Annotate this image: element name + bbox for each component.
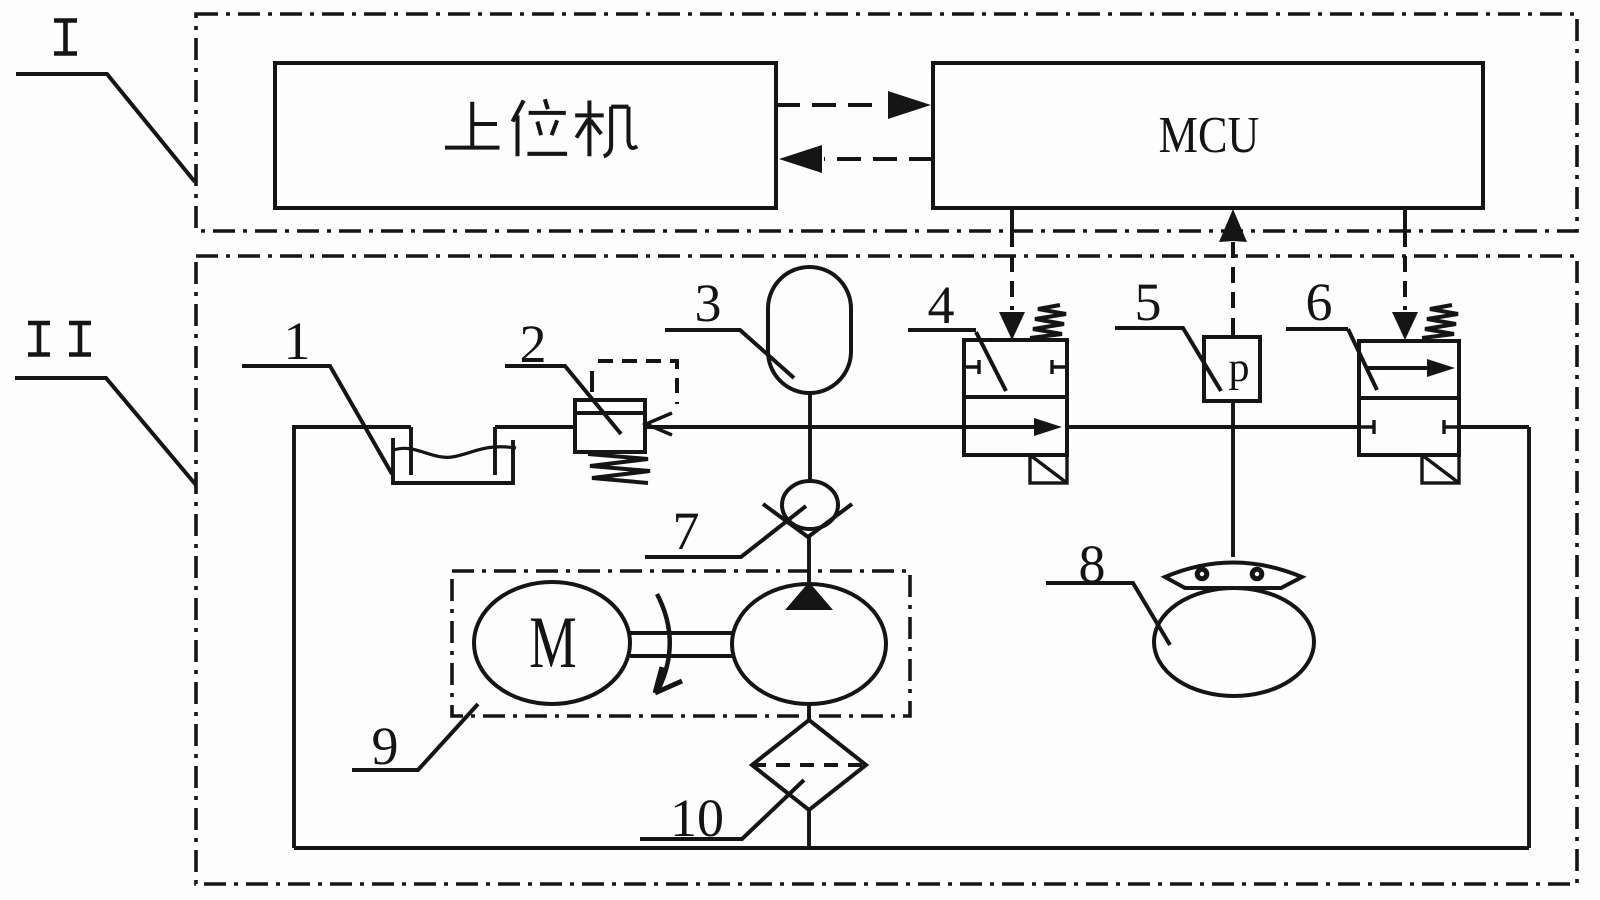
label 10 with leader line (640, 780, 804, 848)
label II with leader line (15, 323, 196, 485)
valve 6 flow path arrow (1365, 359, 1455, 377)
svg-text:3: 3 (695, 273, 722, 333)
valve 6 right port tick (1444, 420, 1459, 434)
wire: pipe valve 4 to valve 6 (1067, 425, 1359, 429)
wire: tank right dip pipe (493, 427, 497, 475)
load 8 right bolt dot (1250, 567, 1265, 582)
accumulator 3 capsule (768, 267, 851, 393)
svg-text:MCU: MCU (1159, 107, 1260, 164)
svg-text:1: 1 (284, 311, 311, 371)
valve 6 solenoid coil box (1422, 455, 1459, 483)
label 7 with leader line (645, 501, 806, 561)
wire: pipe from loop corner to tank inlet (294, 425, 411, 429)
svg-text:M: M (529, 602, 576, 684)
load 8 top lens cap (1165, 563, 1302, 589)
relief valve 2 dashed pilot line with arrow (598, 361, 677, 435)
label 8 with leader line (1046, 534, 1170, 645)
wire: pipe valve 2 to valve 4 (645, 425, 964, 429)
pump circle with outlet triangle (732, 582, 886, 704)
wire: accumulator 3 to main pipe (808, 393, 812, 427)
svg-text:9: 9 (372, 716, 399, 776)
label 2 with leader line (505, 314, 621, 434)
svg-text:5: 5 (1135, 272, 1162, 332)
svg-text:4: 4 (928, 275, 955, 335)
wire: loop right side vertical (1527, 427, 1531, 848)
control signal wire MCU to valve 6 solenoid (1392, 208, 1418, 340)
wire: tank left dip pipe (409, 427, 413, 475)
svg-text:p: p (1229, 345, 1250, 391)
label 6 with leader line (1286, 272, 1348, 332)
control signal wire MCU to valve 4 solenoid (999, 208, 1025, 340)
valve 6 return spring (1422, 305, 1458, 338)
svg-text:7: 7 (673, 501, 700, 561)
filter 10 diamond (752, 720, 866, 810)
solenoid valve 6 two-position body (1359, 341, 1459, 455)
MCU box (933, 63, 1483, 208)
wire: pump suction to filter 10 (807, 704, 811, 720)
relief valve 2 body (575, 371, 645, 452)
label I with leader line (16, 21, 195, 183)
valve 4 solenoid coil box (1030, 455, 1067, 483)
sensor signal wire pressure sensor 5 to MCU with up arrow (1219, 209, 1247, 337)
label 4 with leader line (908, 275, 976, 335)
section I dash-dot boundary frame (196, 14, 1577, 231)
rotation direction arrow (655, 594, 682, 693)
label 1 with leader line (242, 311, 392, 474)
valve 4 return spring (1030, 305, 1066, 338)
host computer box (shang wei ji) (275, 63, 776, 208)
valve 6 closed-position diagonal (1348, 329, 1377, 390)
wire: loop bottom horizontal (294, 846, 1529, 850)
tank 1 open reservoir (393, 438, 516, 483)
wire: main pipe down to check valve 7 (808, 427, 812, 481)
wire: pipe tank outlet to valve 2 (495, 425, 575, 429)
wire: check valve 7 to pump outlet (807, 537, 811, 582)
check valve 7 ball and seat (763, 481, 852, 537)
wire: sensor 5 down through pipe to load 8 (1231, 401, 1235, 557)
solenoid valve 4 two-position body (964, 340, 1067, 455)
valve 4 right port tick (1052, 360, 1067, 374)
pressure sensor 5 box (1204, 337, 1260, 401)
group 9 dash-dot enclosure motor-pump unit (452, 571, 910, 716)
wire: pipe valve 6 to right loop corner (1459, 425, 1529, 429)
motor M circle (474, 582, 630, 704)
dashed signal arrow host to MCU (776, 91, 931, 119)
label 3 with leader line (665, 273, 794, 378)
load 8 chamber body (1154, 588, 1314, 696)
load 8 left bolt dot (1195, 567, 1210, 582)
wire: filter 10 to loop bottom (807, 810, 811, 848)
section II dash-dot boundary frame (196, 256, 1577, 884)
valve 6 left port tick (1359, 420, 1374, 434)
label 5 with leader line (1115, 272, 1221, 391)
valve 4 flow path arrow (964, 418, 1062, 436)
label 9 with leader line (352, 704, 478, 776)
valve 4 closed-position diagonal (976, 332, 1006, 391)
coupling shaft motor to pump (630, 633, 732, 656)
wire: loop left side vertical (292, 425, 296, 848)
relief valve 2 spring (588, 454, 650, 483)
svg-text:6: 6 (1306, 272, 1333, 332)
dashed signal arrow MCU to host (779, 145, 933, 173)
valve 4 left port tick (964, 360, 979, 374)
text label 上位机 drawn as strokes (445, 99, 637, 156)
